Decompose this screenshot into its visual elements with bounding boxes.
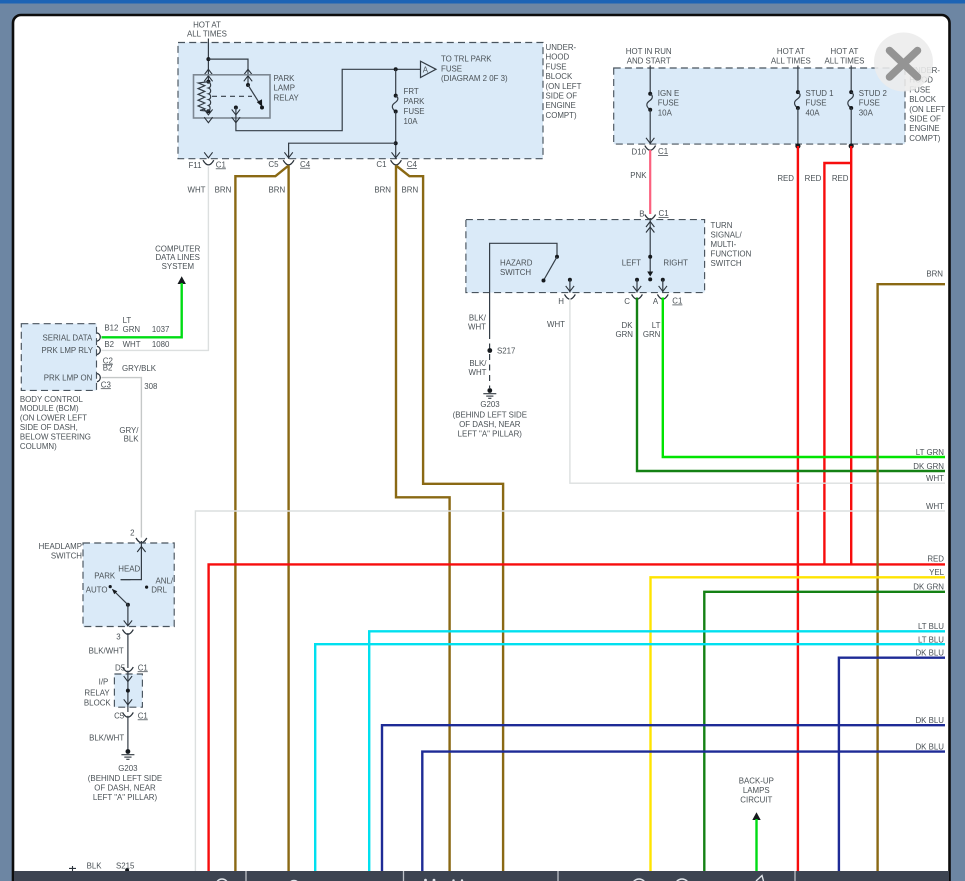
svg-text:DK BLU: DK BLU <box>915 742 944 751</box>
svg-text:B2: B2 <box>103 364 113 373</box>
fuse STUD 1 FUSE 40A <box>795 66 801 147</box>
svg-text:B2: B2 <box>104 340 114 349</box>
wire DK BLU right elbow <box>839 658 945 871</box>
svg-text:C4: C4 <box>300 160 311 169</box>
body control module dashed box <box>21 324 96 391</box>
svg-text:IGN E: IGN E <box>658 89 679 98</box>
svg-text:RED: RED <box>805 174 822 183</box>
svg-text:SIDE OF: SIDE OF <box>546 92 578 101</box>
svg-text:RIGHT: RIGHT <box>663 259 688 268</box>
svg-text:LT GRN: LT GRN <box>916 448 945 457</box>
svg-text:COLUMN): COLUMN) <box>20 442 57 451</box>
svg-text:PRK LMP ON: PRK LMP ON <box>44 374 93 383</box>
wire into switch HEAD contact <box>121 541 142 580</box>
wire BRN 4 from C1 <box>396 166 503 872</box>
label FRT PARK FUSE 10A <box>404 87 426 126</box>
svg-text:HOT AT: HOT AT <box>777 47 805 56</box>
svg-text:HOOD: HOOD <box>546 53 570 62</box>
svg-text:DK: DK <box>622 321 634 330</box>
svg-text:CIRCUIT: CIRCUIT <box>740 796 772 805</box>
svg-text:308: 308 <box>144 382 158 391</box>
close button X <box>874 33 933 92</box>
svg-text:DK GRN: DK GRN <box>913 583 944 592</box>
svg-text:SIDE OF DASH,: SIDE OF DASH, <box>20 423 78 432</box>
label COMPUTER DATA LINES SYSTEM <box>155 244 200 271</box>
svg-text:C1: C1 <box>138 663 148 672</box>
svg-text:BLK/WHT: BLK/WHT <box>89 734 124 743</box>
svg-text:B: B <box>639 209 644 218</box>
svg-text:BLK/: BLK/ <box>469 359 487 368</box>
hazard switch <box>490 243 559 292</box>
svg-text:ALL TIMES: ALL TIMES <box>824 57 864 66</box>
wire BLK/WHT to I/P relay block <box>127 633 129 668</box>
svg-text:B12: B12 <box>104 324 118 333</box>
svg-text:WHT: WHT <box>926 502 944 511</box>
svg-text:SYSTEM: SYSTEM <box>162 262 194 271</box>
label BACK-UP LAMPS CIRCUIT <box>739 777 774 805</box>
svg-text:FUSE: FUSE <box>546 62 567 71</box>
svg-text:SIDE OF: SIDE OF <box>909 115 941 124</box>
svg-text:WHT: WHT <box>469 368 487 377</box>
headlamp switch dashed box <box>83 543 174 627</box>
svg-text:H: H <box>558 297 564 306</box>
wire DK GRN from C to right edge <box>637 298 945 472</box>
pin SERIAL DATA <box>97 333 100 341</box>
svg-text:BLK: BLK <box>124 435 140 444</box>
connector D5 C1 <box>123 667 134 672</box>
svg-text:(ON LOWER LEFT: (ON LOWER LEFT <box>20 414 87 423</box>
svg-text:C3: C3 <box>101 380 112 389</box>
chevrons relay entries <box>204 69 212 75</box>
svg-text:10A: 10A <box>658 108 673 117</box>
wire RED stud2 down <box>850 146 852 564</box>
svg-text:UNDER-: UNDER- <box>546 43 577 52</box>
wire YEL elbow <box>651 577 946 871</box>
svg-text:FRT: FRT <box>404 87 419 96</box>
svg-text:S215: S215 <box>116 862 135 871</box>
svg-text:GRN: GRN <box>643 330 661 339</box>
svg-text:C1: C1 <box>659 209 669 218</box>
svg-text:DRL: DRL <box>151 585 167 594</box>
wire BRN 3 from C1 <box>396 166 450 872</box>
wire BRN right elbow <box>878 284 945 871</box>
svg-text:TO TRL PARK: TO TRL PARK <box>441 55 492 64</box>
ground G203 (turn signal) <box>483 388 496 398</box>
wire RED branch elbow <box>824 163 851 564</box>
svg-text:HOT AT: HOT AT <box>193 20 221 29</box>
svg-text:HEADLAMP: HEADLAMP <box>39 542 82 551</box>
wire BRN 2 from C5 <box>287 166 289 872</box>
connector F11 C1 <box>203 160 214 165</box>
svg-text:RELAY: RELAY <box>84 688 110 697</box>
svg-text:COMPT): COMPT) <box>909 134 940 143</box>
svg-text:LEFT "A" PILLAR): LEFT "A" PILLAR) <box>93 793 158 802</box>
svg-text:SWITCH: SWITCH <box>711 259 742 268</box>
svg-text:BLOCK: BLOCK <box>909 95 936 104</box>
svg-text:GRN: GRN <box>615 330 633 339</box>
svg-text:PNK: PNK <box>630 171 647 180</box>
connector C5 C4 <box>283 160 294 165</box>
contact ANL/DRL <box>145 586 148 589</box>
wire RED horizontal to right edge <box>209 564 945 871</box>
svg-text:BELOW STEERING: BELOW STEERING <box>20 432 91 441</box>
wire feed to relay switch <box>208 59 248 85</box>
wire WHT lower elbow to right edge <box>195 511 945 871</box>
svg-text:SERIAL DATA: SERIAL DATA <box>42 334 93 343</box>
svg-text:C5: C5 <box>114 712 125 721</box>
wire LT BLU upper elbow <box>369 631 945 871</box>
svg-text:40A: 40A <box>806 108 821 117</box>
svg-text:DK BLU: DK BLU <box>915 649 944 658</box>
svg-text:MODULE (BCM): MODULE (BCM) <box>20 404 79 413</box>
svg-text:PARK: PARK <box>94 572 116 581</box>
svg-text:2: 2 <box>130 528 134 537</box>
svg-text:C: C <box>624 297 630 306</box>
svg-text:HAZARD: HAZARD <box>500 258 533 267</box>
relay K1 PARK LAMP RELAY box <box>194 75 271 118</box>
wire fuse output to C5 <box>289 143 396 159</box>
connector D10 C1 <box>645 146 656 151</box>
I/P relay block dashed box <box>114 674 142 707</box>
svg-text:BLK/: BLK/ <box>469 314 487 323</box>
svg-text:C1: C1 <box>138 711 148 720</box>
label UNDER-HOOD FUSE BLOCK (left box) <box>546 43 582 120</box>
svg-text:I/P: I/P <box>99 678 109 687</box>
pin PRK LMP RLY <box>97 346 100 354</box>
splice S215 partial <box>125 868 129 872</box>
top blue strip <box>0 0 965 4</box>
svg-text:3: 3 <box>116 633 121 642</box>
svg-text:G203: G203 <box>118 764 138 773</box>
svg-text:PARK: PARK <box>404 97 426 106</box>
svg-text:STUD 1: STUD 1 <box>806 89 834 98</box>
svg-text:DK GRN: DK GRN <box>913 462 944 471</box>
svg-text:WHT: WHT <box>926 474 944 483</box>
connector C5 C1 <box>123 712 134 717</box>
bottom toolbar <box>14 871 949 881</box>
svg-text:FUSE: FUSE <box>441 65 462 74</box>
svg-text:SIGNAL/: SIGNAL/ <box>711 231 743 240</box>
svg-text:COMPT): COMPT) <box>546 111 577 120</box>
contact A <box>661 278 665 282</box>
contact AUTO <box>109 585 112 588</box>
svg-text:10A: 10A <box>404 117 419 126</box>
wire blade output <box>127 605 129 627</box>
fuse FRT PARK FUSE 10A <box>392 69 398 158</box>
svg-text:PARK: PARK <box>274 74 296 83</box>
relay switch blade <box>246 83 264 110</box>
turn signal / multi-function switch dashed box <box>466 220 705 293</box>
svg-text:HOT AT: HOT AT <box>831 47 859 56</box>
svg-text:C5: C5 <box>268 160 279 169</box>
svg-text:GRN: GRN <box>123 325 141 334</box>
svg-text:STUD 2: STUD 2 <box>859 89 887 98</box>
wire DK BLU lowest elbow <box>422 752 945 871</box>
svg-text:(ON LEFT: (ON LEFT <box>546 82 582 91</box>
node junction feed split <box>206 57 210 61</box>
underhood fuse block (left) dashed box <box>178 43 543 159</box>
svg-text:FUSE: FUSE <box>658 99 679 108</box>
svg-text:HOT IN RUN: HOT IN RUN <box>626 47 672 56</box>
svg-text:OF DASH, NEAR: OF DASH, NEAR <box>94 784 156 793</box>
svg-text:LT BLU: LT BLU <box>918 622 944 631</box>
svg-text:HEAD: HEAD <box>118 565 140 574</box>
svg-text:BRN: BRN <box>215 186 232 195</box>
svg-text:ANL/: ANL/ <box>156 576 174 585</box>
headlamp switch blade <box>112 589 130 607</box>
svg-text:RELAY: RELAY <box>274 94 300 103</box>
svg-text:(ON LEFT: (ON LEFT <box>909 105 945 114</box>
svg-text:D10: D10 <box>632 148 647 157</box>
svg-text:G203: G203 <box>480 400 500 409</box>
svg-text:AUTO: AUTO <box>86 585 108 594</box>
svg-text:PRK LMP RLY: PRK LMP RLY <box>42 346 94 355</box>
svg-text:ALL TIMES: ALL TIMES <box>771 57 811 66</box>
svg-text:FUNCTION: FUNCTION <box>711 250 752 259</box>
svg-text:BRN: BRN <box>374 186 391 195</box>
splice S217 <box>487 348 492 353</box>
svg-text:D5: D5 <box>115 664 126 673</box>
contact C <box>635 278 639 282</box>
svg-text:ALL TIMES: ALL TIMES <box>187 30 227 39</box>
label PARK LAMP RELAY <box>274 74 300 103</box>
svg-text:30A: 30A <box>859 108 874 117</box>
svg-text:(BEHIND LEFT SIDE: (BEHIND LEFT SIDE <box>453 410 527 419</box>
svg-text:WHT: WHT <box>188 186 206 195</box>
wire WHT from H to right edge <box>570 298 945 483</box>
wire relay output <box>236 69 420 130</box>
svg-text:1080: 1080 <box>152 340 170 349</box>
label TURN SIGNAL MULTI-FUNCTION SWITCH <box>711 221 752 268</box>
relay throw contact <box>234 106 238 110</box>
wire RED stud1 down <box>797 146 799 871</box>
svg-text:LT: LT <box>652 321 661 330</box>
pin PRK LMP ON <box>97 374 100 382</box>
node STUD1 output <box>795 143 800 148</box>
wire LT GRN 1037 serial data <box>102 283 182 337</box>
connector C1 C4 <box>391 160 402 165</box>
flag A to trailer park fuse <box>421 61 437 77</box>
svg-text:OF DASH, NEAR: OF DASH, NEAR <box>459 420 521 429</box>
svg-text:C1: C1 <box>672 297 682 306</box>
ground stub partial (bottom left) <box>69 866 76 871</box>
svg-text:C1: C1 <box>216 160 226 169</box>
wire GRN back-up lamps <box>755 819 757 871</box>
ground G203 (headlamp) <box>121 749 134 759</box>
svg-text:BLK: BLK <box>87 862 103 871</box>
fuse IGN E FUSE 10A <box>647 66 653 145</box>
wire hot feed into relay coil <box>207 39 209 82</box>
wire DK BLU middle elbow <box>382 725 945 871</box>
svg-text:SWITCH: SWITCH <box>51 552 82 561</box>
wire BLK/WHT hazard to S217 <box>489 293 491 333</box>
svg-text:WHT: WHT <box>468 323 486 332</box>
svg-text:A: A <box>423 66 429 75</box>
svg-text:TURN: TURN <box>711 221 733 230</box>
svg-text:S217: S217 <box>497 346 515 355</box>
svg-text:C4: C4 <box>407 160 418 169</box>
svg-text:C1: C1 <box>376 160 386 169</box>
svg-text:BLOCK: BLOCK <box>84 699 111 708</box>
svg-text:MULTI-: MULTI- <box>711 240 737 249</box>
wire WHT F11 to BCM B2 <box>102 167 209 351</box>
svg-text:ENGINE: ENGINE <box>546 101 576 110</box>
svg-text:BLOCK: BLOCK <box>546 72 573 81</box>
wire through I/P block <box>127 671 129 713</box>
wire DK GRN lower elbow <box>704 592 945 871</box>
svg-text:RED: RED <box>927 554 944 563</box>
svg-text:FUSE: FUSE <box>859 99 880 108</box>
svg-text:LEFT "A" PILLAR): LEFT "A" PILLAR) <box>458 429 523 438</box>
underhood fuse block (right) dashed box <box>614 68 905 144</box>
arrow to back-up lamps circuit <box>752 812 760 820</box>
svg-text:AND START: AND START <box>627 57 671 66</box>
fuse STUD 2 FUSE 30A <box>848 66 854 147</box>
svg-text:LT BLU: LT BLU <box>918 635 944 644</box>
svg-text:(BEHIND LEFT SIDE: (BEHIND LEFT SIDE <box>88 774 162 783</box>
svg-text:DK BLU: DK BLU <box>915 716 944 725</box>
svg-text:F11: F11 <box>188 161 201 170</box>
node junction at fuse top feed <box>394 67 398 71</box>
svg-text:DATA LINES: DATA LINES <box>155 253 199 262</box>
svg-text:WHT: WHT <box>123 340 141 349</box>
node STUD2 output <box>849 143 854 148</box>
label TO TRL PARK FUSE <box>441 55 508 83</box>
svg-text:RED: RED <box>832 174 849 183</box>
wire GRY/BLK BCM to headlamp switch <box>102 378 142 538</box>
wire BLK/WHT to ground <box>127 716 129 750</box>
svg-text:BLK/WHT: BLK/WHT <box>89 646 124 655</box>
svg-text:BRN: BRN <box>926 269 943 278</box>
svg-text:RED: RED <box>777 174 794 183</box>
svg-text:BRN: BRN <box>269 186 286 195</box>
wire LT GRN from A to right edge <box>663 298 945 458</box>
svg-text:(DIAGRAM 2 0F 3): (DIAGRAM 2 0F 3) <box>441 74 508 83</box>
svg-text:FUSE: FUSE <box>806 99 827 108</box>
svg-text:WHT: WHT <box>547 320 565 329</box>
relay coil <box>198 80 211 114</box>
svg-text:GRY/BLK: GRY/BLK <box>122 364 157 373</box>
wire BRN 1 from C5 <box>235 166 288 872</box>
relay actuation dashed line <box>212 95 252 97</box>
chevrons box exits <box>204 152 212 158</box>
svg-text:BRN: BRN <box>402 186 419 195</box>
wire B into switch <box>649 218 651 275</box>
svg-text:C1: C1 <box>658 147 668 156</box>
wire LT BLU lower elbow <box>315 644 945 871</box>
svg-text:LAMPS: LAMPS <box>743 786 770 795</box>
svg-text:ENGINE: ENGINE <box>909 124 939 133</box>
label I/P RELAY BLOCK <box>84 678 111 708</box>
svg-text:A: A <box>653 297 659 306</box>
svg-text:BODY CONTROL: BODY CONTROL <box>20 395 84 404</box>
contact H <box>568 278 572 282</box>
svg-text:LAMP: LAMP <box>274 84 296 93</box>
svg-text:LT: LT <box>123 316 132 325</box>
svg-text:LEFT: LEFT <box>622 259 641 268</box>
connector B C1 <box>645 215 656 220</box>
arrow to computer data lines <box>178 276 186 284</box>
svg-text:YEL: YEL <box>929 568 945 577</box>
svg-text:1037: 1037 <box>152 325 170 334</box>
wire PNK D10 to B <box>649 150 651 214</box>
svg-text:BACK-UP: BACK-UP <box>739 777 774 786</box>
svg-text:FUSE: FUSE <box>404 107 425 116</box>
svg-text:SWITCH: SWITCH <box>500 268 531 277</box>
label UNDER-HOOD FUSE BLOCK (right box) <box>909 66 945 143</box>
label BODY CONTROL MODULE (BCM) <box>20 395 91 451</box>
